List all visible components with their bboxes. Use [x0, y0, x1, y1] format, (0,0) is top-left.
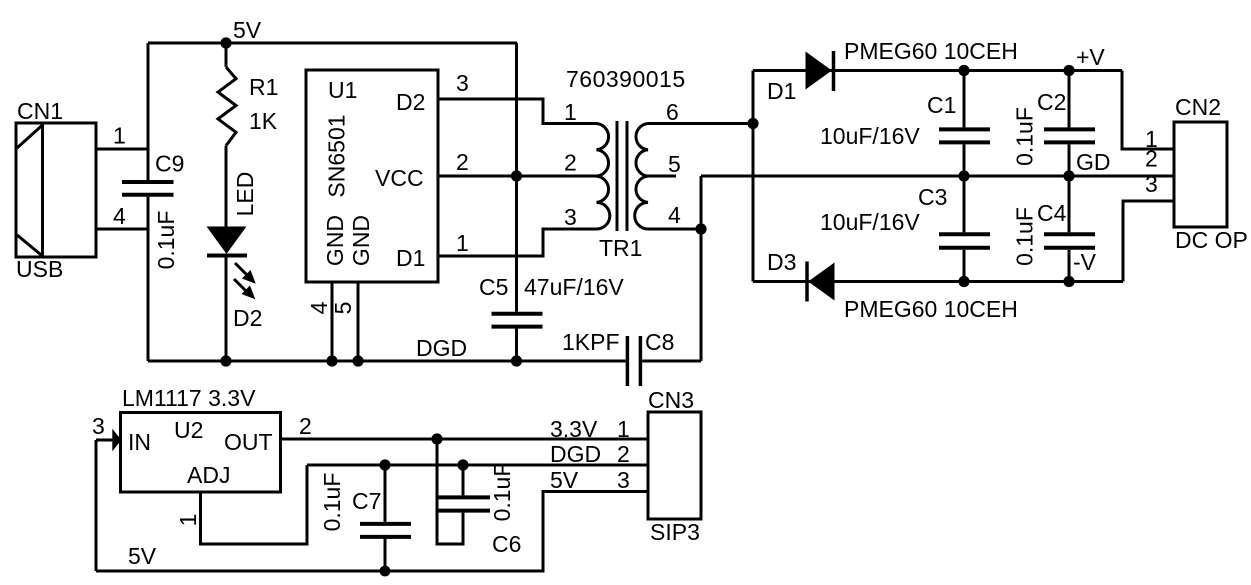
- svg-text:4: 4: [113, 203, 126, 229]
- wire left vertical below C9 to DGD: [147, 197, 150, 361]
- svg-text:C3: C3: [918, 184, 947, 210]
- connector CN1 box: [16, 123, 96, 257]
- svg-text:CN1: CN1: [17, 98, 63, 124]
- wire R1 top stub: [225, 43, 228, 67]
- svg-text:4: 4: [668, 202, 681, 228]
- svg-text:3: 3: [92, 413, 105, 439]
- wire VCC vertical from 5V rail to C5: [515, 43, 518, 312]
- capacitor C6: [439, 497, 491, 510]
- svg-text:5: 5: [668, 151, 681, 177]
- capacitor C5: [492, 314, 543, 327]
- wire C1 bottom: [963, 144, 966, 176]
- capacitor C8: [627, 336, 640, 386]
- wire left vertical above C9: [147, 43, 150, 180]
- connector CN2 box: [1174, 122, 1227, 227]
- wire CN1 pin1: [96, 148, 148, 151]
- LED D2 symbol: [207, 227, 254, 298]
- svg-text:C9: C9: [155, 151, 184, 177]
- wire transformer pin6 to diode vertical: [648, 122, 753, 125]
- svg-text:GD: GD: [1076, 149, 1111, 175]
- wire transformer pin4: [648, 228, 701, 231]
- svg-text:1K: 1K: [249, 108, 278, 134]
- svg-text:CN2: CN2: [1175, 94, 1221, 120]
- transformer TR1 right winding: [635, 124, 648, 230]
- svg-text:5V: 5V: [550, 467, 579, 493]
- wire C7 bottom: [384, 535, 387, 571]
- svg-text:CN3: CN3: [648, 387, 694, 413]
- wire +V rail: [753, 69, 1122, 72]
- wire U2 OUT 3.3V to CN3 pin1: [281, 438, 649, 441]
- wire diode branch vertical D1-D3: [752, 71, 755, 282]
- capacitor C1: [939, 129, 990, 142]
- svg-text:C7: C7: [352, 488, 381, 514]
- svg-text:2: 2: [564, 150, 577, 176]
- svg-text:PMEG60 10CEH: PMEG60 10CEH: [844, 38, 1018, 64]
- svg-text:U2: U2: [174, 417, 203, 443]
- svg-text:5V: 5V: [128, 543, 157, 569]
- wire LED cathode to DGD: [225, 257, 228, 361]
- svg-text:C4: C4: [1037, 200, 1067, 226]
- svg-text:3: 3: [564, 204, 577, 230]
- svg-text:U1: U1: [328, 77, 357, 103]
- svg-text:PMEG60 10CEH: PMEG60 10CEH: [844, 296, 1018, 322]
- svg-text:SN6501: SN6501: [324, 114, 350, 197]
- wire CN1 pin4: [96, 228, 148, 231]
- svg-text:2: 2: [617, 441, 630, 467]
- wire C4 bottom: [1068, 250, 1071, 282]
- svg-text:SIP3: SIP3: [650, 519, 700, 545]
- wire transformer pin5 stub: [648, 175, 676, 178]
- svg-text:1: 1: [617, 416, 630, 442]
- wire U1 GND pin5: [357, 282, 360, 361]
- transformer TR1 left winding: [597, 124, 610, 230]
- svg-text:OUT: OUT: [224, 429, 273, 455]
- svg-text:D1: D1: [396, 245, 425, 271]
- svg-text:0.1uF: 0.1uF: [1012, 207, 1038, 266]
- svg-text:3: 3: [1145, 171, 1158, 197]
- wire U1 pin2 VCC to transformer pin2: [438, 175, 597, 178]
- arrow into U2 IN: [113, 430, 121, 450]
- svg-text:0.1uF: 0.1uF: [489, 463, 515, 522]
- capacitor C9: [122, 182, 174, 195]
- wire DGD rail left of C8: [148, 360, 626, 363]
- svg-text:3.3V: 3.3V: [550, 416, 598, 442]
- svg-text:DC OP: DC OP: [1175, 227, 1248, 253]
- svg-text:D1: D1: [767, 78, 796, 104]
- svg-text:IN: IN: [128, 429, 151, 455]
- wire U1 pin1 D1 to transformer pin3: [438, 229, 597, 256]
- svg-text:2: 2: [299, 413, 312, 439]
- svg-text:USB: USB: [16, 256, 63, 282]
- svg-text:DGD: DGD: [416, 335, 467, 361]
- wire 5V bottom rail to CN3 pin3: [96, 492, 648, 572]
- svg-text:TR1: TR1: [599, 235, 642, 261]
- svg-text:D2: D2: [396, 89, 425, 115]
- svg-text:47uF/16V: 47uF/16V: [524, 274, 624, 300]
- svg-text:0.1uF: 0.1uF: [319, 473, 345, 532]
- wire C3 top: [963, 176, 966, 232]
- svg-text:4: 4: [306, 301, 332, 314]
- svg-text:C5: C5: [479, 274, 508, 300]
- svg-text:C6: C6: [492, 531, 521, 557]
- svg-text:VCC: VCC: [375, 165, 424, 191]
- svg-text:10uF/16V: 10uF/16V: [820, 123, 920, 149]
- svg-text:D2: D2: [233, 305, 262, 331]
- svg-text:1: 1: [113, 123, 126, 149]
- capacitor C2: [1044, 129, 1095, 142]
- wire U2 ADJ to DGD line: [201, 465, 308, 544]
- wire -V rail: [753, 280, 1123, 283]
- connector CN3 box: [648, 412, 701, 519]
- wire U1 GND pin4: [331, 282, 334, 361]
- wire +V to CN2 pin1: [1122, 71, 1174, 150]
- wire -V to CN2 pin3: [1123, 201, 1174, 282]
- wire C4 top: [1068, 176, 1071, 232]
- wire C2 top: [1068, 71, 1071, 128]
- svg-text:760390015: 760390015: [566, 66, 686, 92]
- wire GD rail: [701, 175, 1174, 178]
- svg-text:0.1uF: 0.1uF: [153, 211, 179, 270]
- wire DGD rail right of C8: [642, 360, 701, 363]
- svg-text:GND: GND: [322, 215, 348, 266]
- svg-text:10uF/16V: 10uF/16V: [820, 209, 920, 235]
- svg-text:3: 3: [617, 467, 630, 493]
- transformer TR1 core: [617, 121, 627, 231]
- svg-text:1: 1: [175, 514, 201, 527]
- wire C3 bottom: [963, 250, 966, 282]
- svg-text:1: 1: [456, 230, 469, 256]
- wire C6 bottom to 3.3V: [437, 439, 463, 544]
- diode D1: [806, 51, 834, 91]
- wire U2 IN left vertical 5V: [96, 440, 114, 571]
- svg-text:3: 3: [456, 70, 469, 96]
- svg-text:6: 6: [666, 99, 679, 125]
- svg-text:D3: D3: [767, 249, 796, 275]
- wire C1 top: [963, 71, 966, 128]
- wire 5V top rail: [148, 42, 517, 45]
- svg-text:-V: -V: [1073, 249, 1097, 275]
- capacitor C4: [1044, 234, 1095, 248]
- svg-text:5V: 5V: [233, 17, 262, 43]
- svg-text:5: 5: [330, 302, 356, 315]
- svg-text:LED: LED: [232, 172, 258, 217]
- svg-text:R1: R1: [249, 74, 278, 100]
- regulator U2 box: [121, 413, 281, 493]
- svg-text:1KPF: 1KPF: [562, 329, 620, 355]
- wire C2 bottom: [1068, 144, 1071, 176]
- resistor R1 zigzag: [218, 67, 236, 146]
- diode D3: [807, 262, 834, 302]
- wire C6 top: [462, 465, 465, 495]
- wire R1 to LED: [225, 146, 228, 227]
- svg-text:2: 2: [1145, 146, 1158, 172]
- svg-text:LM1117 3.3V: LM1117 3.3V: [122, 385, 256, 411]
- capacitor C7: [360, 524, 411, 537]
- svg-text:ADJ: ADJ: [187, 462, 230, 488]
- wire vertical from GD corner through pin4 to C8: [700, 176, 703, 361]
- wire DGD line to CN3 pin2: [307, 464, 648, 467]
- capacitor C3: [939, 234, 990, 248]
- svg-text:C2: C2: [1037, 89, 1066, 115]
- wire C5 bottom to DGD: [515, 329, 518, 361]
- IC U1 box: [306, 70, 438, 282]
- svg-text:2: 2: [456, 149, 469, 175]
- svg-text:1: 1: [564, 99, 577, 125]
- svg-text:DGD: DGD: [550, 441, 601, 467]
- wire U1 pin3 D2 to transformer pin1: [438, 99, 597, 124]
- wire C7 top: [384, 465, 387, 522]
- svg-text:+V: +V: [1076, 44, 1105, 70]
- svg-text:GND: GND: [348, 215, 374, 266]
- svg-text:0.1uF: 0.1uF: [1012, 107, 1038, 166]
- svg-text:C8: C8: [645, 329, 674, 355]
- svg-text:C1: C1: [927, 92, 956, 118]
